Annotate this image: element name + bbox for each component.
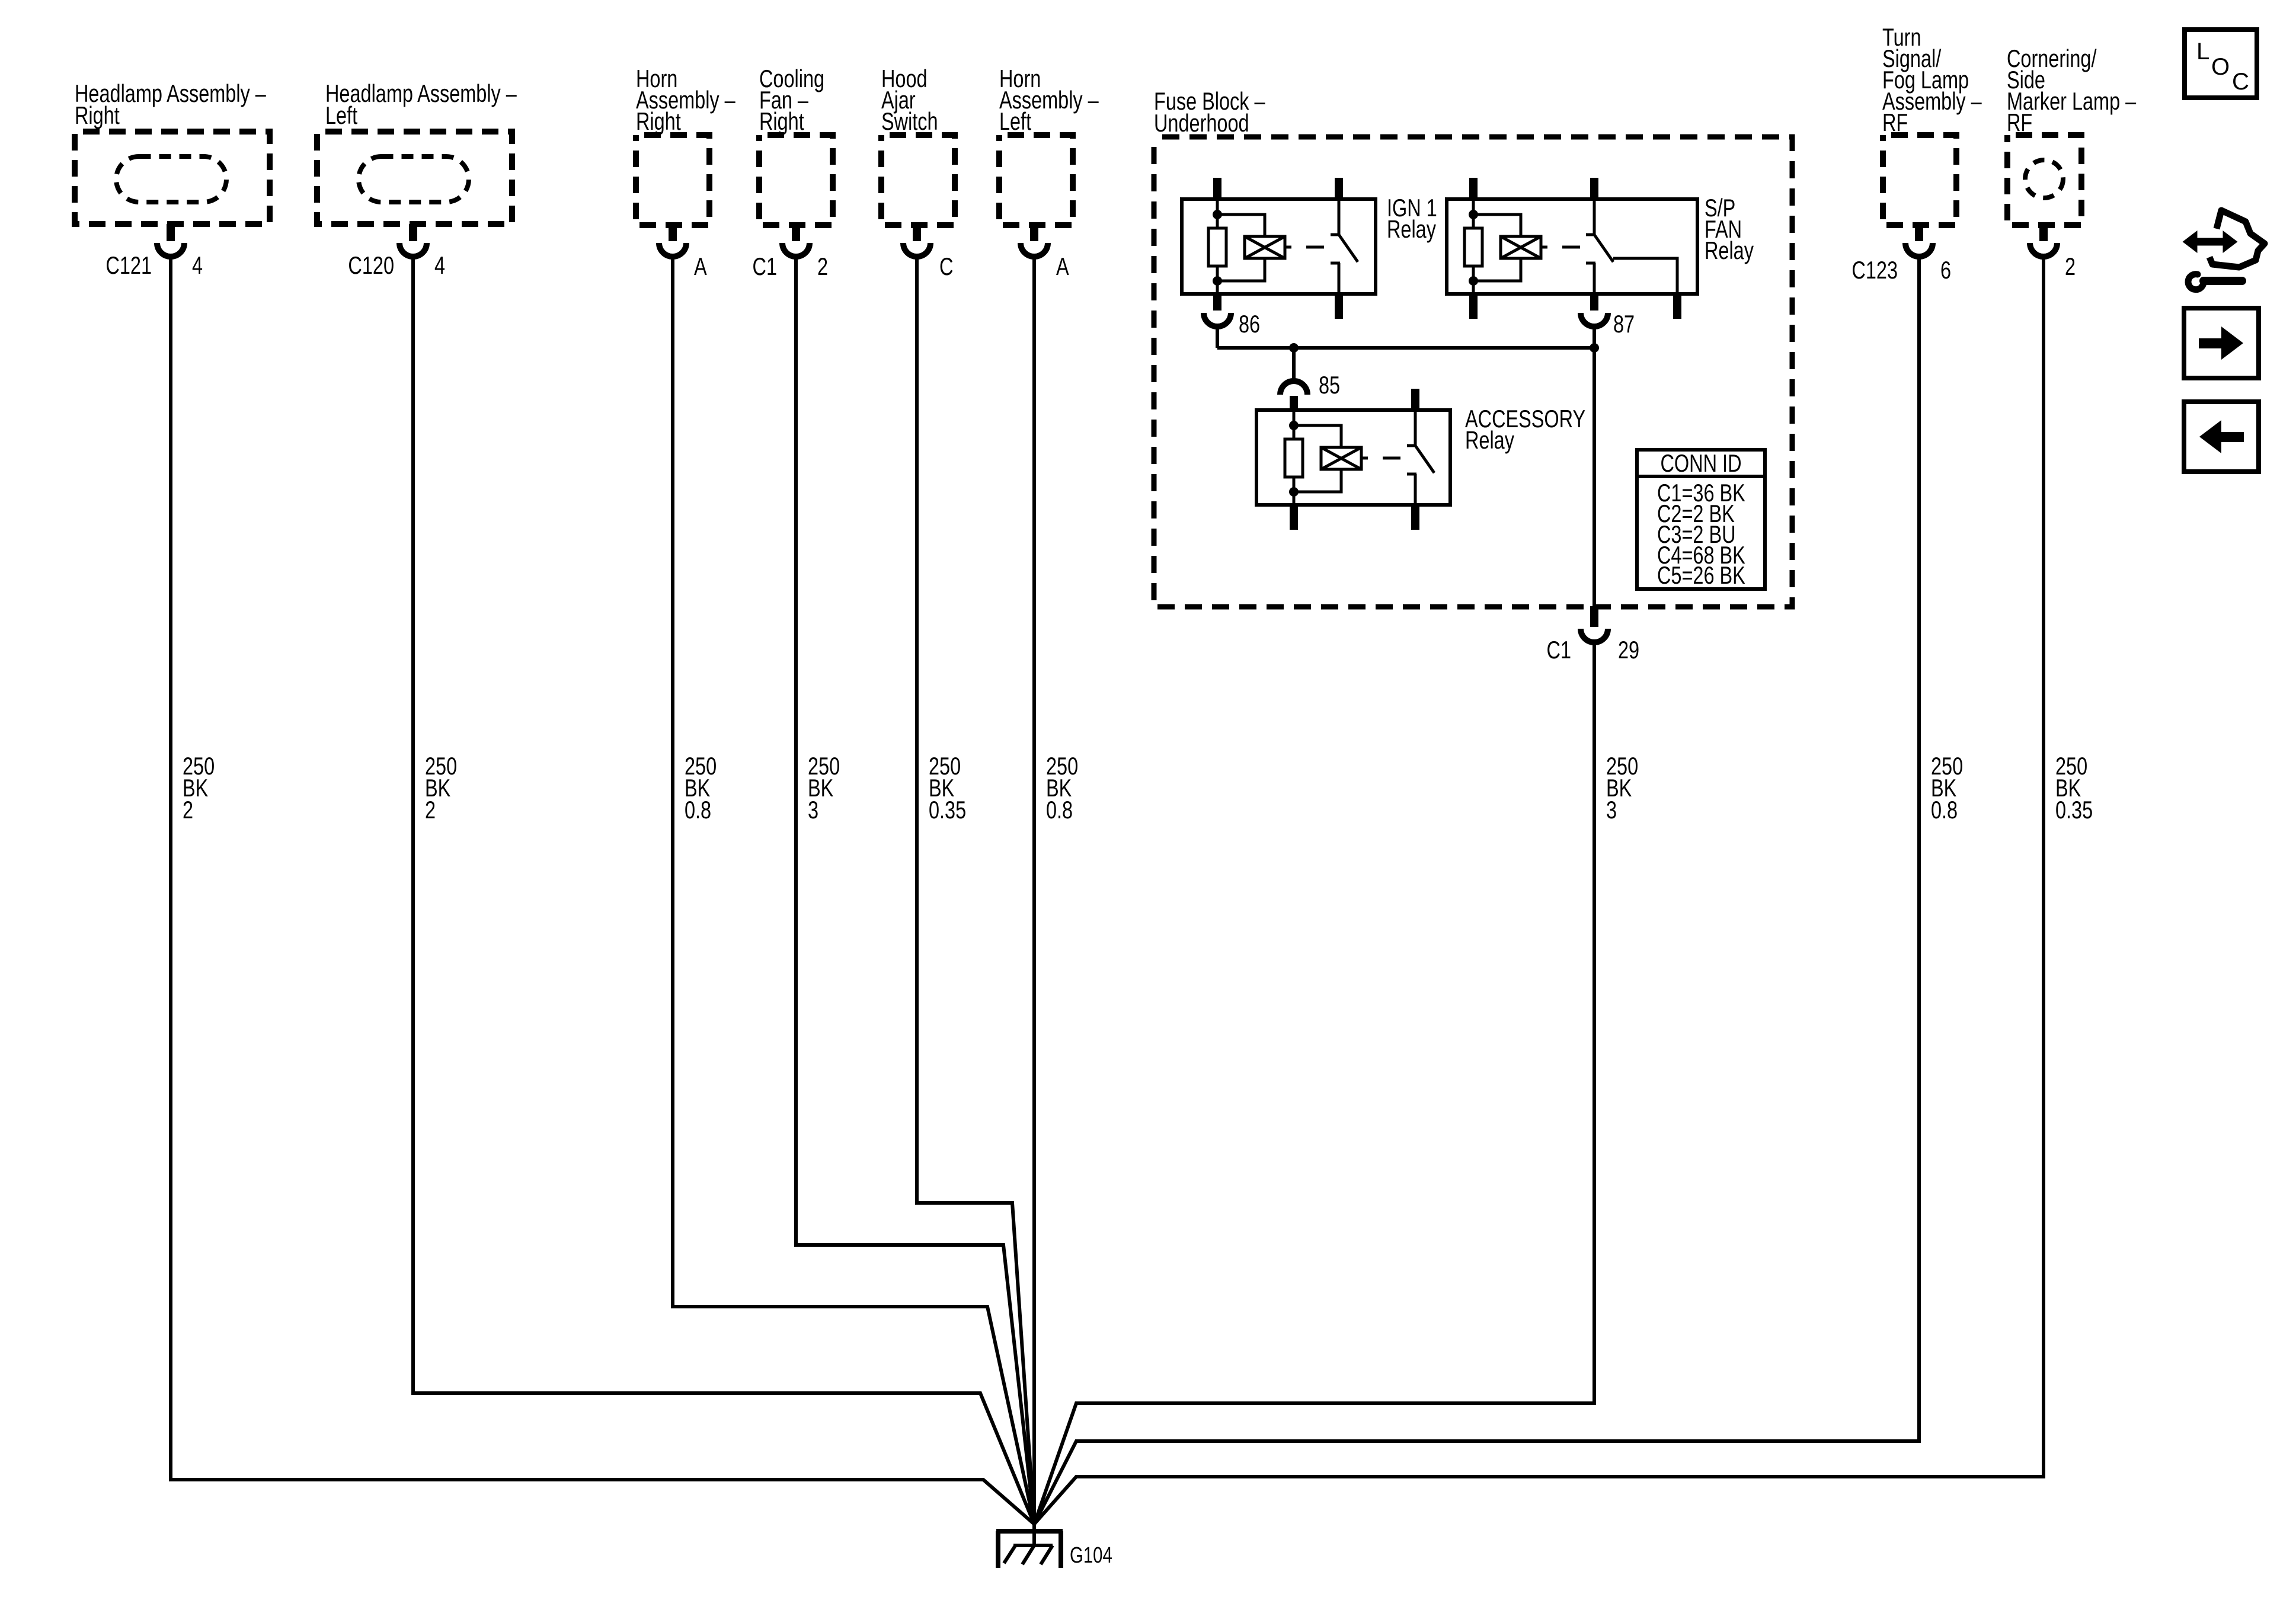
wire from bus junction down to connector C1 pin 29 (1593, 348, 1596, 606)
svg-text:CONN ID: CONN ID (1660, 449, 1741, 477)
svg-text:L: L (2196, 39, 2209, 65)
ground bus wire inside fuse block (1217, 346, 1594, 350)
svg-text:C123: C123 (1851, 256, 1898, 284)
svg-text:6: 6 (1940, 256, 1951, 284)
svg-text:Left: Left (325, 101, 358, 129)
wire bus down to 85 (1292, 348, 1296, 382)
svg-text:A: A (1056, 252, 1069, 280)
forward arrow box icon (2184, 308, 2259, 378)
svg-text:Left: Left (999, 107, 1032, 135)
connector pin 2 (cornering lamp) (2039, 225, 2048, 241)
svg-text:C120: C120 (348, 251, 394, 279)
connector 86 (IGN1 relay coil low side) (1204, 313, 1231, 327)
relay SPFAN dashed actuation link (1541, 246, 1547, 249)
relay ACC coil circuit (1293, 410, 1296, 425)
svg-text:86: 86 (1239, 310, 1260, 338)
svg-text:4: 4 (434, 251, 445, 279)
junction node (bus to C1-29) (1590, 343, 1599, 353)
wire hood ajar switch to G104 (250 BK 0.35) (917, 257, 1034, 1524)
vehicle service icon (double arrow, car outline, wrench) (2184, 232, 2236, 251)
wire C121 to G104 (250 BK 2) (171, 257, 1034, 1524)
relay IGN1 switch (1338, 199, 1341, 235)
svg-text:0.8: 0.8 (685, 796, 711, 824)
svg-text:85: 85 (1319, 371, 1340, 399)
connector pin A (horn right) (669, 225, 677, 241)
svg-text:4: 4 (192, 251, 203, 279)
svg-text:C: C (939, 252, 953, 280)
wire horn left to G104 (250 BK 0.8) (1032, 257, 1036, 1524)
ground G104 symbol (1032, 1524, 1036, 1545)
svg-text:0.8: 0.8 (1931, 796, 1958, 824)
LOC reference box icon (2185, 30, 2257, 98)
relay IGN1 dashed actuation link (1285, 246, 1291, 249)
relay SPFAN coil (winding box with X) (1501, 236, 1541, 258)
relay SPFAN box (1447, 199, 1697, 294)
wire from 86 to ground bus (1216, 327, 1219, 348)
relay IGN1 coil (winding box with X) (1245, 236, 1285, 258)
connector C123 pin 6 (1915, 225, 1923, 241)
connector 87 (S/P FAN relay) (1581, 313, 1608, 327)
relay ACC dashed actuation link (1361, 457, 1368, 460)
svg-text:0.8: 0.8 (1046, 796, 1073, 824)
relay SPFAN pin stubs (1469, 178, 1478, 199)
svg-text:C1: C1 (753, 252, 777, 280)
connector pin C (hood ajar switch) (913, 225, 921, 241)
connector C1 pin 2 (cooling fan) (792, 225, 800, 241)
wire horn right to G104 (250 BK 0.8) (673, 257, 1034, 1524)
svg-text:RF: RF (1882, 108, 1908, 136)
svg-text:C: C (2232, 69, 2249, 95)
svg-text:A: A (694, 252, 707, 280)
ground hatch marks (1004, 1545, 1016, 1563)
svg-text:87: 87 (1613, 310, 1635, 338)
svg-text:Relay: Relay (1705, 236, 1754, 264)
relay ACC switch (1414, 410, 1417, 446)
svg-text:0.35: 0.35 (929, 796, 966, 824)
relay SPFAN coil circuit (1472, 199, 1475, 215)
svg-text:2: 2 (2065, 252, 2076, 280)
svg-text:G104: G104 (1070, 1542, 1112, 1568)
svg-text:2: 2 (183, 796, 193, 824)
svg-text:Right: Right (636, 107, 681, 135)
junction node (bus to accessory relay) (1289, 343, 1299, 353)
connector 85 (ACCESSORY relay coil) (1280, 381, 1307, 395)
svg-text:29: 29 (1618, 636, 1639, 664)
svg-text:Relay: Relay (1387, 215, 1436, 243)
svg-text:0.35: 0.35 (2055, 796, 2093, 824)
relay SPFAN switch (1593, 199, 1596, 235)
svg-text:C5=26 BK: C5=26 BK (1657, 561, 1745, 589)
svg-text:3: 3 (1606, 796, 1617, 824)
relay ACC box (1256, 410, 1450, 505)
svg-text:Relay: Relay (1465, 426, 1514, 454)
relay ACC pin stubs (1290, 396, 1298, 410)
relay ACC coil (winding box with X) (1321, 447, 1361, 469)
connector pin A (horn left) (1030, 225, 1038, 241)
wire turn signal C123-6 to G104 (250 BK 0.8) (1034, 257, 1919, 1524)
relay SPFAN switch output to right pin (1613, 258, 1677, 294)
connector C1 pin 29 (1581, 629, 1608, 642)
wire cooling fan to G104 (250 BK 3) (796, 257, 1034, 1524)
bulb symbol (dashed stadium) in left headlamp (359, 156, 469, 202)
wire fuse block C1-29 to G104 (250 BK 3) (1034, 643, 1594, 1524)
relay IGN1 pin stubs (1213, 178, 1221, 199)
relay IGN1 coil circuit (1216, 199, 1219, 215)
svg-text:2: 2 (817, 252, 828, 280)
wire C120 to G104 (250 BK 2) (413, 257, 1034, 1524)
connector C121 pin 4 (167, 224, 175, 241)
CONN ID table (1637, 450, 1765, 589)
svg-text:O: O (2211, 54, 2230, 80)
svg-text:C1: C1 (1547, 636, 1571, 664)
svg-text:C121: C121 (105, 251, 152, 279)
connector C120 pin 4 (409, 224, 417, 241)
wire cornering lamp to G104 (250 BK 0.35) (1034, 257, 2044, 1524)
svg-text:2: 2 (425, 796, 436, 824)
svg-text:Right: Right (759, 107, 804, 135)
lamp symbol (dashed circle) in cornering lamp (2025, 160, 2063, 198)
bulb symbol (dashed stadium) in right headlamp (116, 156, 226, 202)
svg-text:3: 3 (808, 796, 818, 824)
relay IGN1 box (1182, 199, 1376, 294)
svg-text:RF: RF (2007, 108, 2032, 136)
wire from 87 to ground bus (1593, 327, 1596, 348)
svg-text:Right: Right (75, 101, 120, 129)
svg-text:Underhood: Underhood (1154, 109, 1249, 137)
back arrow box icon (2184, 402, 2259, 472)
svg-text:Switch: Switch (881, 107, 938, 135)
